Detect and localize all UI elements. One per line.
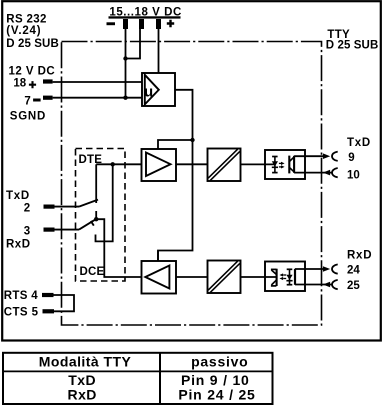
svg-text:7: 7 bbox=[24, 96, 30, 108]
svg-text:(V.24): (V.24) bbox=[6, 25, 41, 37]
opto2 transistor bbox=[271, 269, 277, 286]
wire opto2 out top bbox=[295, 268, 324, 270]
switch1 arm bbox=[79, 200, 98, 207]
isolation boundary (dash-dot rect) bbox=[62, 42, 322, 326]
wire pin18 to regulator bbox=[53, 81, 142, 83]
svg-text:CTS 5: CTS 5 bbox=[4, 307, 39, 319]
socket pin25 bbox=[332, 280, 338, 289]
pin 18 terminal bbox=[29, 81, 36, 88]
iso1 box bbox=[208, 149, 241, 182]
switch1 contact wire bbox=[95, 164, 97, 203]
arrow pin9 bbox=[323, 153, 330, 159]
svg-text:24: 24 bbox=[347, 265, 360, 277]
minus sign bbox=[107, 22, 116, 25]
svg-text:RxD: RxD bbox=[68, 386, 97, 402]
DTE/DCE dashed box bbox=[76, 149, 126, 282]
wire RTS-CTS bracket bbox=[54, 295, 75, 311]
wire opto1 out bottom bbox=[294, 172, 332, 174]
svg-text:RxD: RxD bbox=[6, 239, 31, 251]
wire plus down bbox=[158, 29, 160, 73]
iso2 diagonal bbox=[209, 262, 238, 291]
wire iso1 to opto1 bbox=[241, 163, 275, 165]
wire step mid terminal bbox=[126, 29, 141, 59]
socket pin10 bbox=[332, 168, 338, 177]
opto1 box bbox=[265, 150, 305, 179]
wire TxD row bbox=[96, 163, 141, 165]
svg-text:DCE: DCE bbox=[80, 266, 105, 278]
label RS 232 (V.24) D 25 SUB bbox=[6, 13, 59, 50]
amp1 triangle bbox=[146, 153, 171, 177]
RTS terminal bbox=[42, 293, 54, 297]
svg-text:D 25 SUB: D 25 SUB bbox=[326, 40, 379, 52]
svg-text:2: 2 bbox=[24, 203, 30, 215]
node TxD branch bbox=[111, 162, 115, 166]
svg-text:D 25 SUB: D 25 SUB bbox=[6, 38, 59, 50]
switch2 arm bbox=[79, 218, 98, 229]
wire minus down bbox=[125, 29, 127, 98]
wire amp1 to iso1 bbox=[176, 163, 208, 165]
terminal bar plus bbox=[156, 19, 161, 29]
arrow pin10 bbox=[323, 170, 330, 176]
svg-text:25: 25 bbox=[347, 280, 360, 292]
table bbox=[3, 353, 273, 404]
opto1 LED bbox=[272, 156, 278, 172]
node power tee bbox=[190, 138, 194, 142]
node junction2 bbox=[123, 96, 127, 100]
CTS terminal bbox=[43, 309, 55, 313]
amp1 box bbox=[142, 149, 177, 181]
wire pin2 bbox=[55, 206, 80, 208]
wire power to amp2 bbox=[157, 251, 159, 262]
plus sign bbox=[167, 20, 174, 28]
pin 7 terminal bbox=[33, 99, 41, 102]
opto2 light arrows bbox=[280, 273, 287, 280]
wire opto2 out bottom bbox=[295, 284, 332, 286]
iso2 box bbox=[208, 261, 241, 294]
wire power to amp1 bbox=[158, 140, 193, 149]
switch2 tick bbox=[91, 221, 94, 226]
terminal bar minus bbox=[123, 19, 128, 29]
svg-text:3: 3 bbox=[24, 225, 30, 237]
terminal bar mid bbox=[139, 19, 144, 29]
socket pin24 bbox=[332, 264, 338, 273]
amp2 box bbox=[142, 261, 177, 294]
svg-text:10: 10 bbox=[347, 169, 360, 181]
regulator U1 triangle bbox=[145, 75, 159, 105]
pin 2 terminal bbox=[44, 205, 55, 209]
opto1 transistor bbox=[289, 156, 295, 174]
iso1 diagonal bbox=[209, 150, 238, 179]
svg-text:TxD: TxD bbox=[6, 190, 30, 202]
underline bar bbox=[109, 16, 181, 18]
svg-text:9: 9 bbox=[348, 152, 354, 164]
wire RxD from switch2 bbox=[96, 219, 141, 277]
pin 3 terminal bbox=[44, 228, 55, 232]
opto2 right bar bbox=[294, 269, 296, 285]
switch2 stub bbox=[95, 211, 97, 219]
wire amp2 to iso2 bbox=[176, 276, 208, 278]
svg-text:TxD: TxD bbox=[347, 137, 371, 149]
socket pin9 bbox=[332, 152, 338, 161]
svg-text:passivo: passivo bbox=[191, 353, 248, 369]
wire regulator output bbox=[158, 90, 193, 261]
wire opto1 out top bbox=[294, 155, 324, 157]
arrow pin25 bbox=[323, 282, 330, 288]
opto1 light arrows bbox=[279, 162, 285, 169]
svg-text:RTS 4: RTS 4 bbox=[4, 290, 38, 302]
svg-text:Modalità TTY: Modalità TTY bbox=[39, 353, 132, 369]
svg-text:RS 232: RS 232 bbox=[6, 13, 46, 25]
wire iso2 to opto2 bbox=[241, 276, 277, 278]
node switch2 bbox=[94, 217, 98, 221]
label TTY D 25 SUB bbox=[326, 29, 379, 52]
svg-text:12 V DC: 12 V DC bbox=[9, 66, 56, 78]
opto2 box bbox=[265, 262, 305, 292]
arrow pin24 bbox=[323, 266, 330, 272]
wire TxD to DCE stub bbox=[96, 164, 113, 241]
regulator U1 box bbox=[142, 73, 175, 106]
opto2 LED bbox=[286, 269, 292, 284]
amp2 triangle bbox=[145, 266, 169, 289]
svg-text:SGND: SGND bbox=[10, 110, 46, 122]
svg-text:18: 18 bbox=[13, 78, 26, 90]
wire pin3 bbox=[55, 229, 80, 231]
wire pin7 to regulator bbox=[53, 97, 142, 99]
svg-text:RxD: RxD bbox=[347, 249, 372, 261]
svg-text:u: u bbox=[144, 84, 153, 101]
svg-text:Pin 24 / 25: Pin 24 / 25 bbox=[178, 386, 255, 402]
node junction1 bbox=[123, 56, 127, 60]
